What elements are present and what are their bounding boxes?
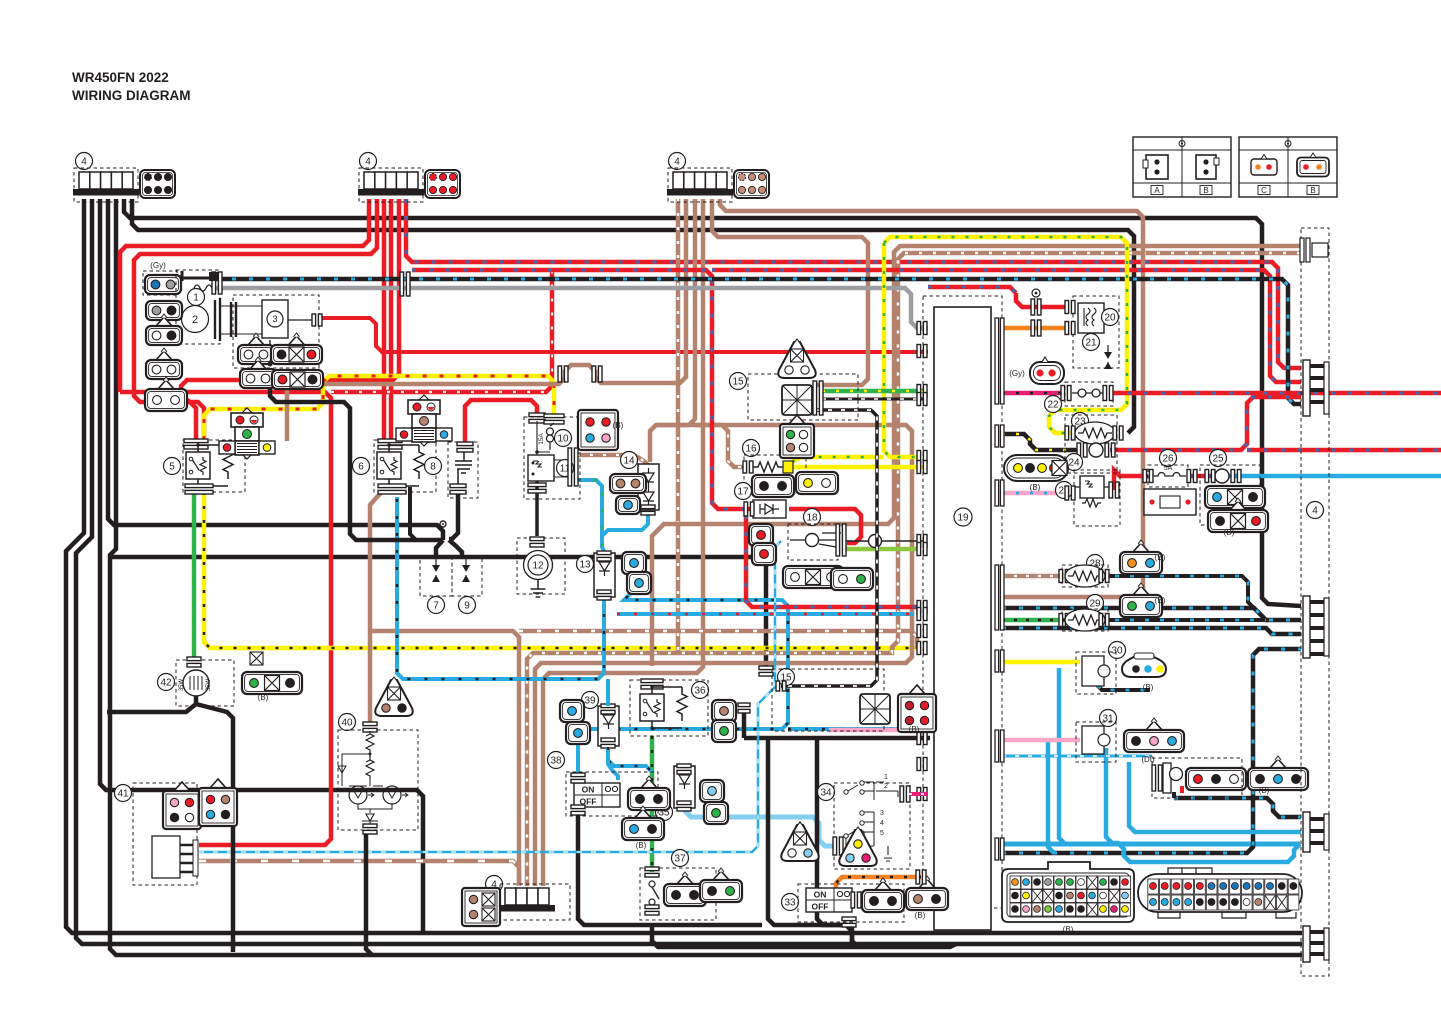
gnd 7 box	[420, 556, 452, 596]
conn 25a	[1205, 486, 1265, 508]
cap 8 box	[448, 442, 478, 498]
bar 22r	[1103, 386, 1113, 401]
svg-text:25: 25	[1212, 454, 1224, 465]
wire yellow/red to fuse 10	[204, 376, 554, 440]
wire yellow 30	[1002, 660, 1080, 665]
label relay 5	[164, 458, 181, 475]
bar 33	[851, 892, 861, 908]
wire black top run 2 to fuse 23	[132, 199, 1134, 433]
svg-text:21: 21	[1085, 338, 1097, 349]
conn 39b	[566, 722, 590, 744]
ecu pin w	[917, 393, 927, 406]
bar 25r	[1231, 470, 1241, 483]
wire black to junction y525	[108, 199, 430, 525]
wire blue 31 drop	[1048, 742, 1054, 853]
bar black-gray left	[212, 272, 222, 294]
right column 4	[1301, 228, 1329, 976]
bar 33 orange right	[916, 870, 926, 884]
wire cyan bottom long	[1002, 842, 1300, 847]
svg-text:33: 33	[784, 898, 796, 909]
plus connector 5	[219, 408, 275, 459]
cap8 bottom bar	[450, 484, 466, 494]
relay 11 box	[528, 455, 570, 481]
flasher 40 interior	[338, 731, 408, 826]
wire brown to relay 10-11	[287, 199, 686, 384]
wire blue y729 to ecu	[788, 727, 921, 731]
label relay 20	[1102, 309, 1119, 326]
conn 35b	[704, 802, 728, 824]
bar brown jog b	[592, 366, 602, 382]
wire orange relay20	[1002, 326, 1068, 331]
svg-text:ON: ON	[582, 785, 595, 795]
conn 17a	[752, 475, 794, 497]
bar 23r	[1113, 426, 1123, 440]
box 25	[1200, 465, 1260, 525]
coupler 4c comb	[667, 172, 733, 196]
connector 2p white a	[238, 333, 274, 364]
meter 12 circle	[524, 551, 553, 580]
box 41	[133, 783, 197, 885]
svg-text:35W: 35W	[179, 678, 185, 691]
box 15	[748, 374, 858, 420]
ecu pin red	[917, 345, 927, 358]
svg-text:A: A	[1154, 186, 1160, 195]
wire black junction link	[430, 525, 443, 540]
box 26	[1148, 465, 1188, 487]
wire black 42 frame	[196, 704, 233, 952]
switch 37	[649, 881, 659, 905]
svg-text:37: 37	[674, 854, 686, 865]
joint 20 in2	[1031, 320, 1041, 336]
svg-text:B: B	[1203, 186, 1208, 195]
conn 39a	[560, 700, 584, 722]
wire black/yellow 24	[1002, 434, 1080, 450]
connector small a	[146, 301, 182, 320]
ecu pin gy	[917, 451, 927, 464]
svg-text:OFF: OFF	[812, 902, 829, 912]
connector 3p x a	[271, 333, 322, 364]
wire red main left drop	[120, 199, 369, 392]
box 20	[1073, 296, 1119, 368]
wire yellow 16 to ecu	[792, 465, 928, 470]
wire brown relay6 to 40	[370, 493, 381, 722]
bolt circle	[1032, 289, 1040, 297]
label cap 8	[425, 458, 442, 475]
box 38	[566, 772, 658, 816]
svg-text:24: 24	[1068, 458, 1080, 469]
svg-text:(B): (B)	[909, 725, 920, 734]
wire 11 gnd	[535, 481, 539, 536]
coupler 4b dashed box	[359, 168, 423, 202]
wire yellow/black long	[204, 492, 920, 648]
wire black 37 bottom	[652, 924, 956, 947]
svg-text:2: 2	[192, 314, 198, 326]
conn 36a	[712, 700, 736, 722]
wire green/yellow diag	[792, 457, 884, 462]
X mark 42	[250, 652, 263, 665]
bar 15 right	[813, 381, 823, 415]
bar 27r	[1109, 482, 1119, 498]
svg-text:9: 9	[464, 601, 470, 612]
switch 34 contacts	[844, 774, 898, 861]
wire brown y673 loop	[543, 199, 703, 886]
bar 38 top	[571, 773, 585, 783]
unit 3 dashed box	[233, 295, 319, 368]
svg-text:4: 4	[674, 157, 680, 168]
connector small c	[146, 348, 182, 379]
bar 27l	[1065, 486, 1075, 500]
ECU unit 19	[934, 307, 991, 930]
wire red/blue long top	[406, 199, 1301, 368]
bar 32	[1152, 765, 1162, 791]
bar 20a	[1065, 301, 1075, 314]
wire red 26	[1114, 470, 1148, 490]
big connector stadium bottom	[1138, 868, 1302, 918]
svg-text:(B): (B)	[1224, 528, 1235, 537]
connector 33a	[862, 878, 904, 912]
wire gray long	[215, 288, 928, 328]
relay6 top bar	[378, 439, 402, 449]
svg-text:(B): (B)	[1143, 683, 1154, 692]
ecu pin p	[917, 788, 927, 801]
connector 37a	[664, 872, 706, 906]
wire black/blue ecu right	[1002, 649, 1301, 853]
bar 37 bot	[645, 905, 659, 915]
joint 20 in	[1031, 299, 1041, 315]
wire blue 39 to 38	[608, 760, 618, 780]
X connector 15b	[860, 694, 890, 724]
ecu pin b	[917, 732, 927, 745]
conn 29	[1120, 583, 1162, 617]
wire blue 39 to green	[608, 747, 652, 772]
stub low right (3pin)	[1303, 812, 1329, 852]
label label 15b	[778, 669, 795, 686]
diode 39	[598, 706, 619, 746]
connector 15 tri	[778, 339, 816, 378]
svg-text:1: 1	[884, 774, 888, 781]
svg-text:(B): (B)	[1030, 483, 1041, 492]
bar 29r	[1099, 614, 1109, 627]
box 30	[1076, 652, 1116, 694]
svg-text:7: 7	[433, 601, 439, 612]
wire green/black 36-37	[650, 736, 655, 872]
breaker 24	[1089, 443, 1103, 457]
connector 2p white b	[240, 357, 276, 388]
svg-text:31: 31	[1102, 714, 1114, 725]
wire black unit3 to junction	[270, 370, 443, 540]
junction circle	[440, 521, 446, 527]
ecu 19 outer box	[923, 296, 1002, 908]
bar 40 bottom	[363, 824, 377, 834]
wire magenta 22	[1002, 391, 1063, 396]
wire blue relay11 to 13	[577, 480, 604, 551]
wire bl 28r	[1100, 576, 1254, 608]
big connector B bottom	[1002, 862, 1134, 922]
label diode 13	[577, 556, 594, 573]
svg-text:35W: 35W	[206, 678, 212, 691]
wire black cap8 down	[449, 492, 458, 539]
wire brown/white drop	[676, 199, 681, 653]
relay 20	[1078, 303, 1104, 333]
wire green/yellow 15	[822, 389, 926, 394]
wire brown to 15 bar	[712, 199, 868, 385]
bar 34 pink	[900, 786, 910, 802]
connector block b	[425, 170, 460, 198]
svg-text:40: 40	[341, 718, 353, 729]
label coupler 4 label a	[76, 153, 93, 170]
connector gy	[145, 275, 181, 294]
junction dot	[268, 362, 273, 367]
ecu pin l2	[917, 758, 927, 771]
bar 35 bot	[677, 801, 691, 811]
svg-text:ON: ON	[814, 890, 827, 900]
box 18	[788, 524, 838, 560]
unit 3 box	[262, 300, 288, 338]
wire thin blue 32	[1002, 755, 1152, 758]
label label 24	[1066, 454, 1083, 471]
label label 31	[1100, 710, 1117, 727]
wire red/blue ecu-20	[928, 287, 1016, 293]
conn 28	[1120, 540, 1162, 574]
wire thin unit3 out	[288, 319, 313, 321]
bar 18r	[836, 524, 846, 556]
svg-text:(B): (B)	[613, 421, 624, 430]
connector small d	[145, 377, 187, 411]
wire red/blue 18 drop	[746, 515, 920, 607]
resistor 23	[1075, 422, 1115, 444]
stub bottom right (3pin)	[1303, 926, 1329, 962]
connector 38a	[628, 776, 670, 810]
wire black 38 down	[578, 812, 762, 925]
label label 35	[656, 804, 673, 821]
label label 32	[1214, 769, 1231, 786]
label label 15	[730, 373, 747, 390]
ecu pin rb	[917, 601, 927, 614]
wire brown/white y631 to ecu	[519, 631, 917, 649]
wire thin blue 41-18	[199, 541, 781, 852]
box 33	[798, 884, 904, 922]
label coupler 4 label c	[669, 153, 686, 170]
label unit 1	[188, 289, 205, 306]
ecu pin lime	[917, 543, 927, 556]
label label 27	[1056, 482, 1073, 499]
box 31	[1076, 722, 1116, 762]
wire blue 39 top	[606, 679, 610, 706]
fuse 22	[1072, 389, 1106, 397]
terminal square	[209, 272, 218, 281]
wire black to gnd 9	[449, 540, 462, 558]
wire pink 27	[1002, 491, 1074, 496]
label label 26	[1160, 450, 1177, 467]
label label 16	[743, 440, 760, 457]
bar 37 top	[645, 867, 659, 877]
svg-text:8: 8	[430, 462, 436, 473]
svg-text:6: 6	[358, 462, 364, 473]
label label 18	[804, 509, 821, 526]
bar 34 in	[833, 837, 843, 855]
wire brown 28	[1002, 574, 1065, 579]
label gnd 9	[459, 597, 476, 614]
wire black y738 from ecu	[744, 736, 930, 741]
svg-text:(B): (B)	[1063, 925, 1074, 934]
label diode 14	[621, 452, 638, 469]
wire green headlight	[192, 492, 197, 658]
wire green/yellow loop	[884, 237, 1127, 433]
plus connector 6	[396, 395, 452, 446]
gnd 12 box	[517, 538, 565, 594]
box 27	[1074, 470, 1120, 526]
connector small b	[146, 314, 182, 345]
bar 28l	[1059, 570, 1069, 583]
box 10-11	[524, 417, 580, 499]
wire blue diode13 left loop	[397, 497, 604, 679]
svg-text:B: B	[1310, 186, 1315, 195]
wire thin unit3 down	[269, 340, 271, 362]
wire black/white 15 to 15b	[781, 410, 877, 686]
throttle unit 32	[1163, 763, 1183, 793]
wire blue to switch38	[576, 729, 580, 776]
fuse 15A	[535, 421, 554, 455]
connector 34a	[781, 822, 819, 861]
conn 32a	[1186, 768, 1246, 790]
relay 5 interior	[186, 443, 233, 487]
svg-text:22: 22	[1047, 400, 1059, 411]
svg-text:15: 15	[732, 377, 744, 388]
coupler 4c dashed box	[668, 168, 732, 202]
relay 36 interior	[640, 685, 687, 729]
ground 12 sym	[531, 580, 546, 597]
wire brown/white right loop	[527, 253, 1300, 886]
bar 11 bottom	[528, 483, 546, 493]
wire black x817 drop	[817, 738, 858, 947]
wire black 33 down	[850, 925, 855, 947]
relay6 bottom bar	[378, 484, 406, 494]
diode 35	[674, 766, 695, 808]
ecu pin lr	[917, 608, 927, 621]
bar 29l	[1059, 614, 1069, 627]
svg-text:12: 12	[532, 561, 544, 572]
svg-text:4: 4	[81, 157, 87, 168]
svg-text:(B): (B)	[258, 693, 269, 702]
wire red 32	[1180, 786, 1184, 793]
relay 27	[1074, 476, 1112, 507]
label label 33	[782, 894, 799, 911]
svg-text:26: 26	[1162, 454, 1174, 465]
svg-text:(B): (B)	[1259, 786, 1270, 795]
ground 21	[1104, 345, 1112, 369]
connector 33b	[906, 876, 948, 910]
wire black to gnd 7	[436, 540, 443, 558]
oval connector 27B	[1004, 455, 1068, 481]
X connector 15	[782, 385, 812, 415]
connector 34b	[839, 827, 877, 866]
wire blue 25	[1229, 474, 1441, 479]
svg-text:30: 30	[1111, 646, 1123, 657]
breaker 25	[1215, 469, 1229, 483]
wire green/yellow drop	[884, 243, 920, 457]
conn 18b	[752, 543, 776, 565]
wire pink 15b	[829, 728, 916, 733]
bar 23l	[1065, 426, 1075, 440]
svg-text:5: 5	[880, 830, 884, 837]
conn 18d	[831, 568, 873, 590]
diode 13	[594, 553, 615, 597]
box 29	[1062, 609, 1108, 631]
label label 37	[672, 850, 689, 867]
svg-text:5A: 5A	[1164, 465, 1173, 472]
legend box C/B	[1239, 137, 1337, 197]
svg-text:39: 39	[584, 696, 596, 707]
svg-text:20: 20	[1104, 313, 1116, 324]
wire black relay6 ground drop	[410, 487, 416, 540]
svg-text:(B): (B)	[1155, 596, 1166, 605]
ecu pin y	[917, 461, 927, 474]
horn unit	[1144, 489, 1196, 515]
big connector B pins	[1010, 876, 1131, 916]
connector 37b	[700, 868, 742, 902]
box 16	[744, 455, 806, 493]
label label 36	[692, 682, 709, 699]
svg-text:WR450FN 2022: WR450FN 2022	[72, 70, 169, 85]
box 37	[640, 868, 716, 920]
svg-text:(B): (B)	[915, 911, 926, 920]
ecu pin lb	[917, 723, 927, 736]
svg-text:17: 17	[737, 487, 749, 498]
svg-text:36: 36	[694, 686, 706, 697]
diode rect 17	[753, 500, 786, 518]
svg-text:C: C	[1261, 186, 1267, 195]
label label 23	[1072, 413, 1089, 430]
conn 35a	[700, 780, 724, 802]
label label 22	[1045, 396, 1062, 413]
stub mid2 right (5pin)	[1303, 596, 1329, 658]
svg-text:(B): (B)	[1155, 553, 1166, 562]
label label 25	[1210, 450, 1227, 467]
wire red drop to relay 6 a	[382, 199, 387, 440]
label label 42	[158, 674, 175, 691]
connector 3p x b	[272, 370, 323, 389]
resistor 29	[1065, 609, 1105, 631]
conn 18c	[783, 566, 843, 588]
wire red/blue 22 right	[1110, 391, 1441, 396]
box 23-24	[1065, 415, 1117, 473]
x pin	[1052, 461, 1067, 476]
coupler 4b comb	[358, 172, 424, 196]
coil unit1	[194, 285, 212, 291]
wire blue right 1	[583, 580, 788, 729]
svg-text:3: 3	[880, 810, 884, 817]
wire brown relay11 to diode 14	[577, 455, 648, 465]
relay 5 box	[183, 440, 245, 492]
capacitor 8	[455, 452, 472, 488]
wire brown y663 loop	[535, 425, 912, 886]
label label 28	[1087, 555, 1104, 572]
bar 13 bot	[597, 590, 611, 600]
conn 25b	[1208, 498, 1268, 532]
motor unit2 windings	[215, 298, 262, 341]
box 22	[1065, 382, 1113, 406]
conn 36b	[712, 720, 736, 742]
label label 40	[339, 714, 356, 731]
conn 32b	[1248, 756, 1308, 790]
svg-text:42: 42	[160, 678, 172, 689]
switch 33 ON/OFF	[806, 888, 852, 912]
box 32	[1152, 758, 1242, 798]
big connector stadium pins	[1148, 879, 1299, 910]
wire brown right to unit 36	[652, 246, 1300, 666]
label label 39	[582, 692, 599, 709]
fuse 26	[1152, 473, 1186, 477]
